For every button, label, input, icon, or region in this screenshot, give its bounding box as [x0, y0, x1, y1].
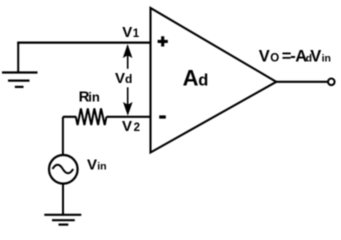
- op-amp + input marker: [158, 36, 168, 46]
- svg-text:V: V: [259, 48, 270, 66]
- svg-text:V: V: [115, 70, 125, 87]
- source Vin circle: [49, 155, 78, 184]
- svg-text:V: V: [122, 24, 132, 41]
- label VO = -AdVin: [259, 48, 331, 66]
- ground top-left: [2, 73, 38, 87]
- wire from source to resistor: [63, 116, 76, 118]
- wire source stem up: [62, 117, 64, 155]
- op-amp - input marker: [159, 115, 166, 118]
- Vd arrowhead up: [123, 44, 133, 58]
- wire source to ground: [62, 185, 64, 215]
- node Vd label: [113, 69, 134, 88]
- svg-text:1: 1: [133, 28, 140, 40]
- svg-text:in: in: [97, 161, 106, 173]
- Vd arrowhead down: [123, 102, 133, 116]
- resistor Rin zigzag: [76, 108, 107, 125]
- svg-text:A: A: [183, 65, 199, 90]
- svg-text:O: O: [270, 53, 279, 65]
- wire resistor to - input: [106, 116, 150, 118]
- wire top from ground to + input: [17, 41, 150, 43]
- wire output: [276, 81, 328, 83]
- ground top-left stem: [17, 43, 19, 73]
- ground bottom: [44, 215, 81, 225]
- source sine wave: [53, 165, 74, 174]
- svg-text:V: V: [87, 157, 97, 174]
- output terminal circle: [328, 79, 335, 86]
- svg-text:d: d: [198, 71, 208, 89]
- svg-text:in: in: [88, 89, 100, 104]
- svg-text:d: d: [125, 72, 132, 86]
- svg-text:2: 2: [134, 122, 140, 134]
- op-amp U1 triangle: [151, 8, 277, 153]
- Vd arrow line: [127, 46, 129, 113]
- svg-text:V: V: [310, 48, 321, 66]
- svg-text:in: in: [322, 53, 331, 65]
- svg-text:V: V: [122, 118, 132, 135]
